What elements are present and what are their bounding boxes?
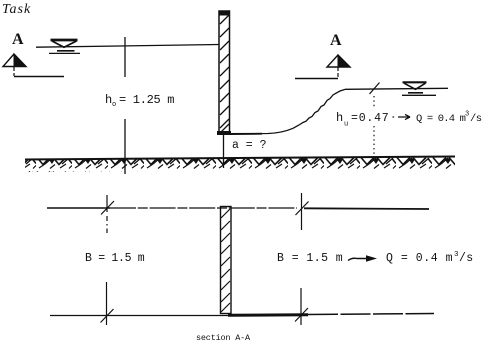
svg-text:Q = 0.4 m: Q = 0.4 m <box>416 113 466 125</box>
gate opening line (below gate) <box>223 135 225 168</box>
gate (plan) <box>221 207 232 314</box>
svg-text:B = 1.5 m: B = 1.5 m <box>85 252 145 265</box>
svg-text:= 1.25 m: = 1.25 m <box>119 93 174 107</box>
bottom channel wall <box>50 314 434 316</box>
svg-text:=0.47: =0.47 <box>351 112 390 125</box>
flow arrow (plan) <box>348 258 368 260</box>
ground line <box>25 157 455 160</box>
svg-text:h: h <box>336 111 343 125</box>
svg-text:section A-A: section A-A <box>196 333 251 343</box>
dotted depth line h_u <box>373 96 375 107</box>
upstream water level symbol <box>49 40 80 53</box>
svg-text:3: 3 <box>465 111 469 119</box>
svg-text:u: u <box>344 121 348 129</box>
left centerline (plan) <box>101 195 115 325</box>
label h0 = 1.25 m <box>105 93 174 109</box>
sluice gate (elevation) <box>217 11 231 135</box>
section arrow (right) <box>327 55 350 67</box>
tick at downstream level <box>370 83 380 95</box>
dimension line h0 (vertical) <box>124 37 126 174</box>
section arrow (left) <box>3 54 26 67</box>
svg-text:o: o <box>112 101 116 109</box>
svg-text:/s: /s <box>470 113 482 125</box>
svg-text:Q = 0.4 m: Q = 0.4 m <box>386 252 453 265</box>
svg-text:a = ?: a = ? <box>232 139 267 152</box>
jet surface at gate foot <box>229 133 262 135</box>
downstream water surface line <box>345 88 448 89</box>
svg-text:A: A <box>330 32 342 49</box>
downstream water level symbol <box>402 82 436 95</box>
svg-text:/s: /s <box>459 252 474 265</box>
label Q = 0.4 m3/s (plan) <box>386 251 474 265</box>
top channel wall <box>47 208 429 209</box>
label h_u = 0.47 -> Q = 0.4 m3/s <box>336 111 482 129</box>
section leader line (right) <box>295 67 338 79</box>
svg-text:B = 1.5 m: B = 1.5 m <box>277 252 343 265</box>
right centerline (plan) <box>295 193 309 325</box>
downstream water surface curve <box>231 89 345 133</box>
ground hatch band <box>25 157 455 173</box>
upstream water surface line <box>36 45 219 48</box>
svg-text:A: A <box>12 31 24 48</box>
gate bottom foot <box>217 131 231 135</box>
svg-text:Task: Task <box>2 2 31 17</box>
section leader line (left) <box>14 67 64 77</box>
